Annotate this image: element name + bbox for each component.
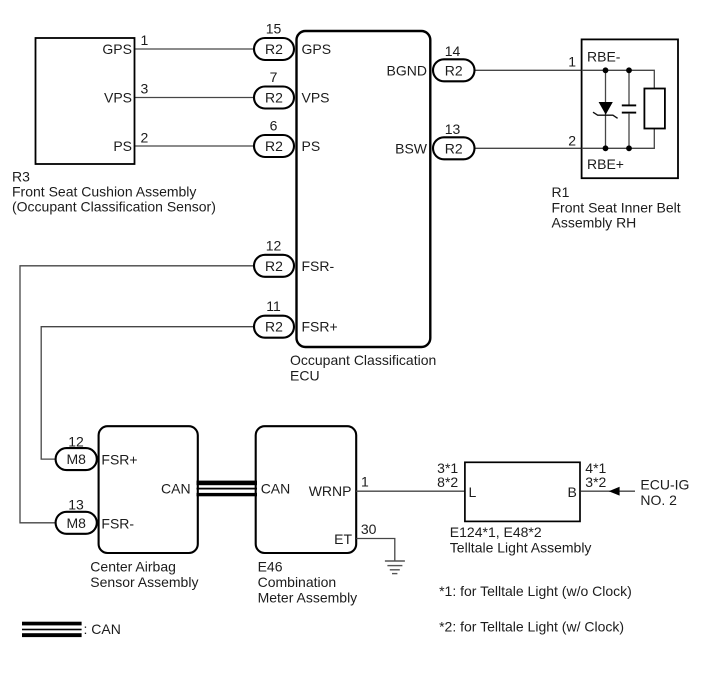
svg-text:6: 6 xyxy=(270,118,278,134)
connector R2 pin 12 (FSR-) xyxy=(254,255,294,277)
svg-text:CAN: CAN xyxy=(161,480,191,496)
svg-text:*1: for Telltale Light (w/o Cl: *1: for Telltale Light (w/o Clock) xyxy=(439,583,632,599)
svg-text:R1: R1 xyxy=(552,184,570,200)
svg-text:8*2: 8*2 xyxy=(437,474,458,490)
svg-text:WRNP: WRNP xyxy=(309,483,352,499)
svg-text:13: 13 xyxy=(68,496,84,512)
svg-text:11: 11 xyxy=(266,298,281,314)
svg-text:Assembly RH: Assembly RH xyxy=(552,214,637,230)
svg-text:Occupant Classification: Occupant Classification xyxy=(290,352,436,368)
svg-text:FSR-: FSR- xyxy=(302,258,335,274)
connector R2 pin 15 (GPS) xyxy=(254,38,294,60)
svg-text:13: 13 xyxy=(445,121,461,137)
wire R2 pin11 FSR+ left and down to M8 pin12 xyxy=(41,327,255,459)
svg-text:3*2: 3*2 xyxy=(585,474,606,490)
component R3 Front Seat Cushion Assembly box xyxy=(36,38,135,164)
component E46 Combination Meter Assembly box xyxy=(256,426,357,553)
svg-text:BGND: BGND xyxy=(387,63,427,79)
svg-text:M8: M8 xyxy=(66,451,86,467)
svg-text:2: 2 xyxy=(141,130,149,146)
ground xyxy=(385,560,405,562)
connector R2 pin 11 (FSR+) xyxy=(254,316,294,338)
svg-text:FSR+: FSR+ xyxy=(101,452,137,468)
svg-text:Center Airbag: Center Airbag xyxy=(90,559,176,575)
CAN bus symbol between boxes xyxy=(197,481,258,486)
component R1 Front Seat Inner Belt Assembly box xyxy=(582,39,678,178)
svg-text:1: 1 xyxy=(361,474,369,490)
svg-text:R2: R2 xyxy=(265,319,283,335)
wire bottom rail inside R1 xyxy=(582,129,655,149)
svg-text:: CAN: : CAN xyxy=(84,621,121,637)
connector R2 pin 13 (BSW) xyxy=(433,137,475,159)
capacitor C1 branch xyxy=(628,70,630,105)
wire top rail inside R1 xyxy=(582,70,655,88)
svg-text:3: 3 xyxy=(141,81,149,97)
svg-text:Sensor Assembly: Sensor Assembly xyxy=(90,574,198,590)
wire R3 PS to R2 pin6 xyxy=(135,145,256,147)
svg-text:ECU: ECU xyxy=(290,368,320,384)
connector R2 pin 14 (BGND) xyxy=(433,59,475,81)
svg-text:FSR-: FSR- xyxy=(101,515,134,531)
svg-text:1: 1 xyxy=(568,53,576,69)
wire R3 VPS to R2 pin7 xyxy=(135,97,256,99)
svg-text:30: 30 xyxy=(361,521,377,537)
legend CAN bus symbol xyxy=(22,622,82,626)
svg-text:RBE-: RBE- xyxy=(587,48,621,64)
svg-text:2: 2 xyxy=(568,133,576,149)
svg-text:15: 15 xyxy=(266,21,282,37)
svg-text:Meter Assembly: Meter Assembly xyxy=(258,590,358,606)
svg-text:B: B xyxy=(567,484,576,500)
wire E46 ET to ground xyxy=(356,539,395,561)
svg-text:Combination: Combination xyxy=(258,574,337,590)
svg-text:ET: ET xyxy=(334,531,352,547)
svg-text:FSR+: FSR+ xyxy=(302,319,338,335)
svg-text:R3: R3 xyxy=(12,169,30,185)
svg-text:14: 14 xyxy=(445,43,461,59)
component Telltale Light Assembly box xyxy=(465,462,580,521)
svg-text:(Occupant Classification Senso: (Occupant Classification Sensor) xyxy=(12,199,216,215)
zener diode D1 branch xyxy=(605,70,607,148)
svg-text:R2: R2 xyxy=(445,141,463,157)
svg-text:12: 12 xyxy=(68,433,84,449)
wire R2 pin14 BGND to R1 pin1 xyxy=(474,69,582,71)
junction node dots xyxy=(603,67,609,73)
connector R2 pin 6 (PS) xyxy=(254,135,294,157)
svg-text:CAN: CAN xyxy=(261,480,291,496)
svg-text:R2: R2 xyxy=(265,41,283,57)
connector M8 pin 13 (FSR-) xyxy=(56,512,97,534)
resistor R branch xyxy=(644,89,665,129)
svg-text:Telltale Light Assembly: Telltale Light Assembly xyxy=(450,539,592,555)
svg-text:Front Seat Cushion Assembly: Front Seat Cushion Assembly xyxy=(12,184,196,200)
svg-text:VPS: VPS xyxy=(104,90,132,106)
svg-text:R2: R2 xyxy=(265,90,283,106)
svg-text:E46: E46 xyxy=(258,559,283,575)
svg-text:R2: R2 xyxy=(265,258,283,274)
svg-text:BSW: BSW xyxy=(395,141,428,157)
svg-text:PS: PS xyxy=(113,138,132,154)
wire R3 GPS to R2 pin15 xyxy=(135,48,256,50)
svg-text:PS: PS xyxy=(302,138,321,154)
wire ECU-IG NO.2 into Telltale B xyxy=(581,490,636,492)
svg-text:GPS: GPS xyxy=(102,41,132,57)
svg-text:GPS: GPS xyxy=(302,41,332,57)
connector R2 pin 7 (VPS) xyxy=(254,87,294,109)
svg-text:12: 12 xyxy=(266,237,282,253)
svg-text:VPS: VPS xyxy=(302,90,330,106)
svg-text:*2: for Telltale Light (w/ Clo: *2: for Telltale Light (w/ Clock) xyxy=(439,619,624,635)
arrow ECU-IG direction xyxy=(609,487,620,496)
svg-text:R2: R2 xyxy=(265,138,283,154)
wire R2 pin12 FSR- left and down to M8 pin13 xyxy=(20,266,255,523)
component Center Airbag Sensor Assembly box xyxy=(99,426,198,553)
wire R2 pin13 BSW to R1 pin2 xyxy=(474,147,582,149)
svg-text:Front Seat Inner Belt: Front Seat Inner Belt xyxy=(552,199,681,215)
wire E46 WRNP to Telltale L xyxy=(356,490,465,492)
svg-text:ECU-IG: ECU-IG xyxy=(640,476,689,492)
svg-text:M8: M8 xyxy=(66,515,86,531)
component Occupant Classification ECU box xyxy=(297,31,431,347)
svg-text:E124*1, E48*2: E124*1, E48*2 xyxy=(450,524,542,540)
svg-text:RBE+: RBE+ xyxy=(587,156,624,172)
svg-text:7: 7 xyxy=(270,69,278,85)
svg-text:L: L xyxy=(469,484,477,500)
svg-text:R2: R2 xyxy=(445,63,463,79)
svg-text:1: 1 xyxy=(141,32,149,48)
svg-text:NO. 2: NO. 2 xyxy=(640,492,677,508)
connector M8 pin 12 (FSR+) xyxy=(56,448,97,470)
